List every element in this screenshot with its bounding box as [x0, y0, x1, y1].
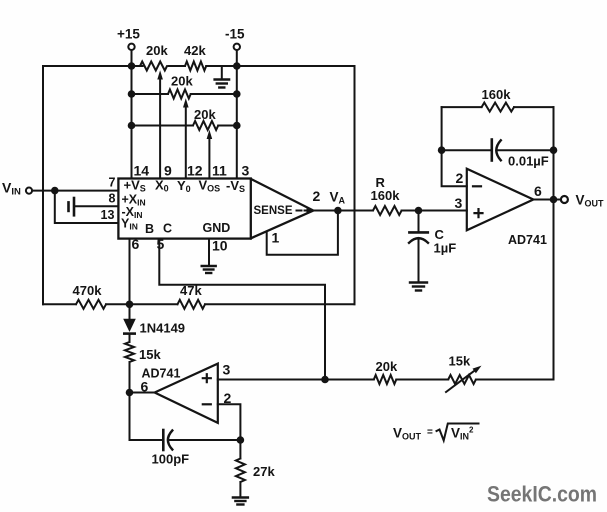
node feedback left junction [438, 146, 446, 154]
wire supply divider rail 3 [132, 125, 237, 127]
op-amp U2 AD741 (square rooter feedback amp) [155, 364, 218, 423]
wire U1 pin2 up to feedback [442, 107, 467, 186]
resistor 42k [185, 62, 206, 71]
wire feedback cap row [442, 149, 554, 151]
node feedback right junction [550, 146, 558, 154]
node rail3 left junction [128, 122, 136, 130]
wire +15 stub / pin 14 stub [131, 50, 133, 178]
resistor 470k [76, 300, 106, 309]
node VA junction [334, 207, 342, 215]
svg-text:13: 13 [101, 208, 115, 222]
svg-text:7: 7 [109, 176, 116, 190]
terminal +15 [117, 27, 140, 51]
resistor R 160k (to integrator) [373, 206, 402, 215]
node rail2 left junction [128, 90, 136, 98]
wire supply divider rail 2 [132, 93, 237, 95]
svg-text:SeekIC.com: SeekIC.com [487, 482, 597, 507]
resistor 15k (vertical) [125, 342, 134, 362]
wire op2 summing rail down to 100pF [129, 362, 131, 440]
svg-text:+15: +15 [117, 27, 140, 42]
ground at pin 10 [202, 239, 216, 273]
svg-text:=: = [427, 427, 433, 438]
wiper arrow to pin 12 Y0 [183, 98, 189, 178]
svg-text:20k: 20k [146, 43, 168, 58]
potentiometer 20k (middle, Y0 trim) [168, 90, 191, 99]
wire U2 pin3 long input wire [218, 379, 554, 381]
svg-text:6: 6 [132, 236, 140, 252]
ground at 42k [215, 66, 230, 88]
svg-text:-15: -15 [225, 27, 245, 42]
node summing junction [126, 301, 134, 309]
wire U2 output to left rail [130, 392, 155, 394]
terminal -15 [225, 27, 245, 51]
svg-text:20k: 20k [171, 74, 193, 89]
terminal VOUT [561, 193, 604, 209]
svg-text:1: 1 [272, 230, 280, 246]
IC label SENSE with arrow [254, 205, 313, 217]
potentiometer 15k (rheostat with diagonal arrow) [448, 375, 476, 384]
wire middle tall rail (top rail to 47k node) [354, 66, 356, 304]
wire VIN node to pin 13 [55, 191, 119, 223]
svg-text:5: 5 [157, 236, 165, 252]
potentiometer 20k (bottom, VOS trim) [193, 121, 218, 130]
node +15 rail junction [128, 62, 136, 70]
svg-text:42k: 42k [184, 43, 206, 58]
wire feedback top [442, 106, 554, 108]
svg-text:9: 9 [164, 163, 172, 179]
wire pin 5 (C) down and over to op amp input [159, 239, 325, 380]
svg-text:20k: 20k [194, 107, 216, 122]
wire summing node row [43, 303, 355, 305]
ground at C [410, 283, 427, 291]
op-amp U1 AD741 (output amp) [467, 169, 534, 231]
svg-text:1µF: 1µF [434, 241, 457, 256]
capacitor symbol at pin 8 [69, 198, 75, 215]
svg-text:14: 14 [134, 163, 150, 179]
svg-text:1N4149: 1N4149 [140, 321, 186, 336]
resistor 47k [178, 300, 206, 309]
svg-text:15k: 15k [449, 354, 471, 369]
node U2 output junction [126, 389, 134, 397]
ground at 27k [233, 498, 248, 505]
node VIN junction [51, 187, 59, 195]
svg-text:12: 12 [187, 163, 203, 179]
svg-text:GND: GND [203, 221, 231, 235]
node R-C junction [415, 207, 423, 215]
wire U1 output [533, 199, 561, 201]
svg-text:27k: 27k [253, 464, 275, 479]
U1 plus input mark [475, 209, 483, 217]
svg-text:160k: 160k [371, 188, 401, 203]
capacitor 0.01uF [492, 140, 549, 169]
node U2 pin3 junction [321, 376, 329, 384]
U2 minus input mark [203, 403, 211, 405]
wiper arrow to pin 9 X0 [157, 70, 163, 178]
node VOUT junction [550, 196, 558, 204]
resistor 160k feedback [482, 103, 514, 112]
capacitor C 1uF [409, 211, 456, 282]
resistor 27k (vertical) [236, 459, 245, 483]
wiper arrow to pin 11 VOS [207, 130, 213, 179]
wire left vertical rail [42, 66, 44, 304]
svg-text:11: 11 [212, 163, 227, 179]
svg-text:15k: 15k [139, 347, 161, 362]
node rail2 right junction [233, 90, 241, 98]
formula VOUT = sqrt(VIN^2) [393, 424, 479, 442]
svg-text:3: 3 [242, 163, 250, 179]
svg-text:100pF: 100pF [152, 452, 190, 467]
svg-text:470k: 470k [73, 283, 103, 298]
node rail3 right junction [233, 122, 241, 130]
svg-text:47k: 47k [180, 283, 202, 298]
svg-text:10: 10 [212, 238, 228, 254]
node -15 rail junction [233, 62, 241, 70]
wire pin 1 feedback loop [267, 211, 338, 255]
svg-text:C: C [163, 222, 172, 236]
U1 minus input mark [473, 185, 481, 187]
wire pin 2 output to VA node [313, 210, 373, 212]
svg-text:3: 3 [223, 362, 231, 378]
capacitor 100pF [130, 430, 241, 467]
svg-text:160k: 160k [482, 87, 512, 102]
terminal VIN [2, 180, 32, 198]
wire pin 6 down to summing node [129, 239, 131, 305]
svg-text:0.01µF: 0.01µF [508, 154, 549, 169]
resistor 20k (bottom) [374, 375, 397, 384]
svg-text:2: 2 [456, 170, 464, 186]
svg-text:20k: 20k [376, 359, 398, 374]
diode 1N4149 [123, 304, 185, 342]
svg-text:6: 6 [534, 183, 542, 199]
svg-text:3: 3 [455, 195, 463, 211]
wire pin 8 [75, 205, 118, 207]
multiplier IC body (AD534) [118, 179, 313, 239]
svg-text:8: 8 [109, 192, 116, 206]
wire VA to op1 + input [402, 210, 467, 212]
wire VIN to pin 7 [32, 190, 118, 192]
potentiometer 20k (top, X0 trim) [140, 62, 167, 71]
wire -15 stub / pin 3 stub [236, 50, 238, 178]
wire U2 pin2 to 100pF/27k node [218, 404, 241, 440]
svg-text:SENSE: SENSE [254, 205, 293, 217]
svg-text:B: B [145, 222, 154, 236]
wire right feedback rail down to output and 15k pot [553, 107, 555, 379]
wire top supply rail [43, 65, 355, 67]
U2 plus input mark [203, 374, 211, 382]
node 100pF-27k junction [237, 436, 245, 444]
svg-text:2: 2 [313, 188, 321, 204]
svg-text:AD741: AD741 [508, 233, 547, 247]
